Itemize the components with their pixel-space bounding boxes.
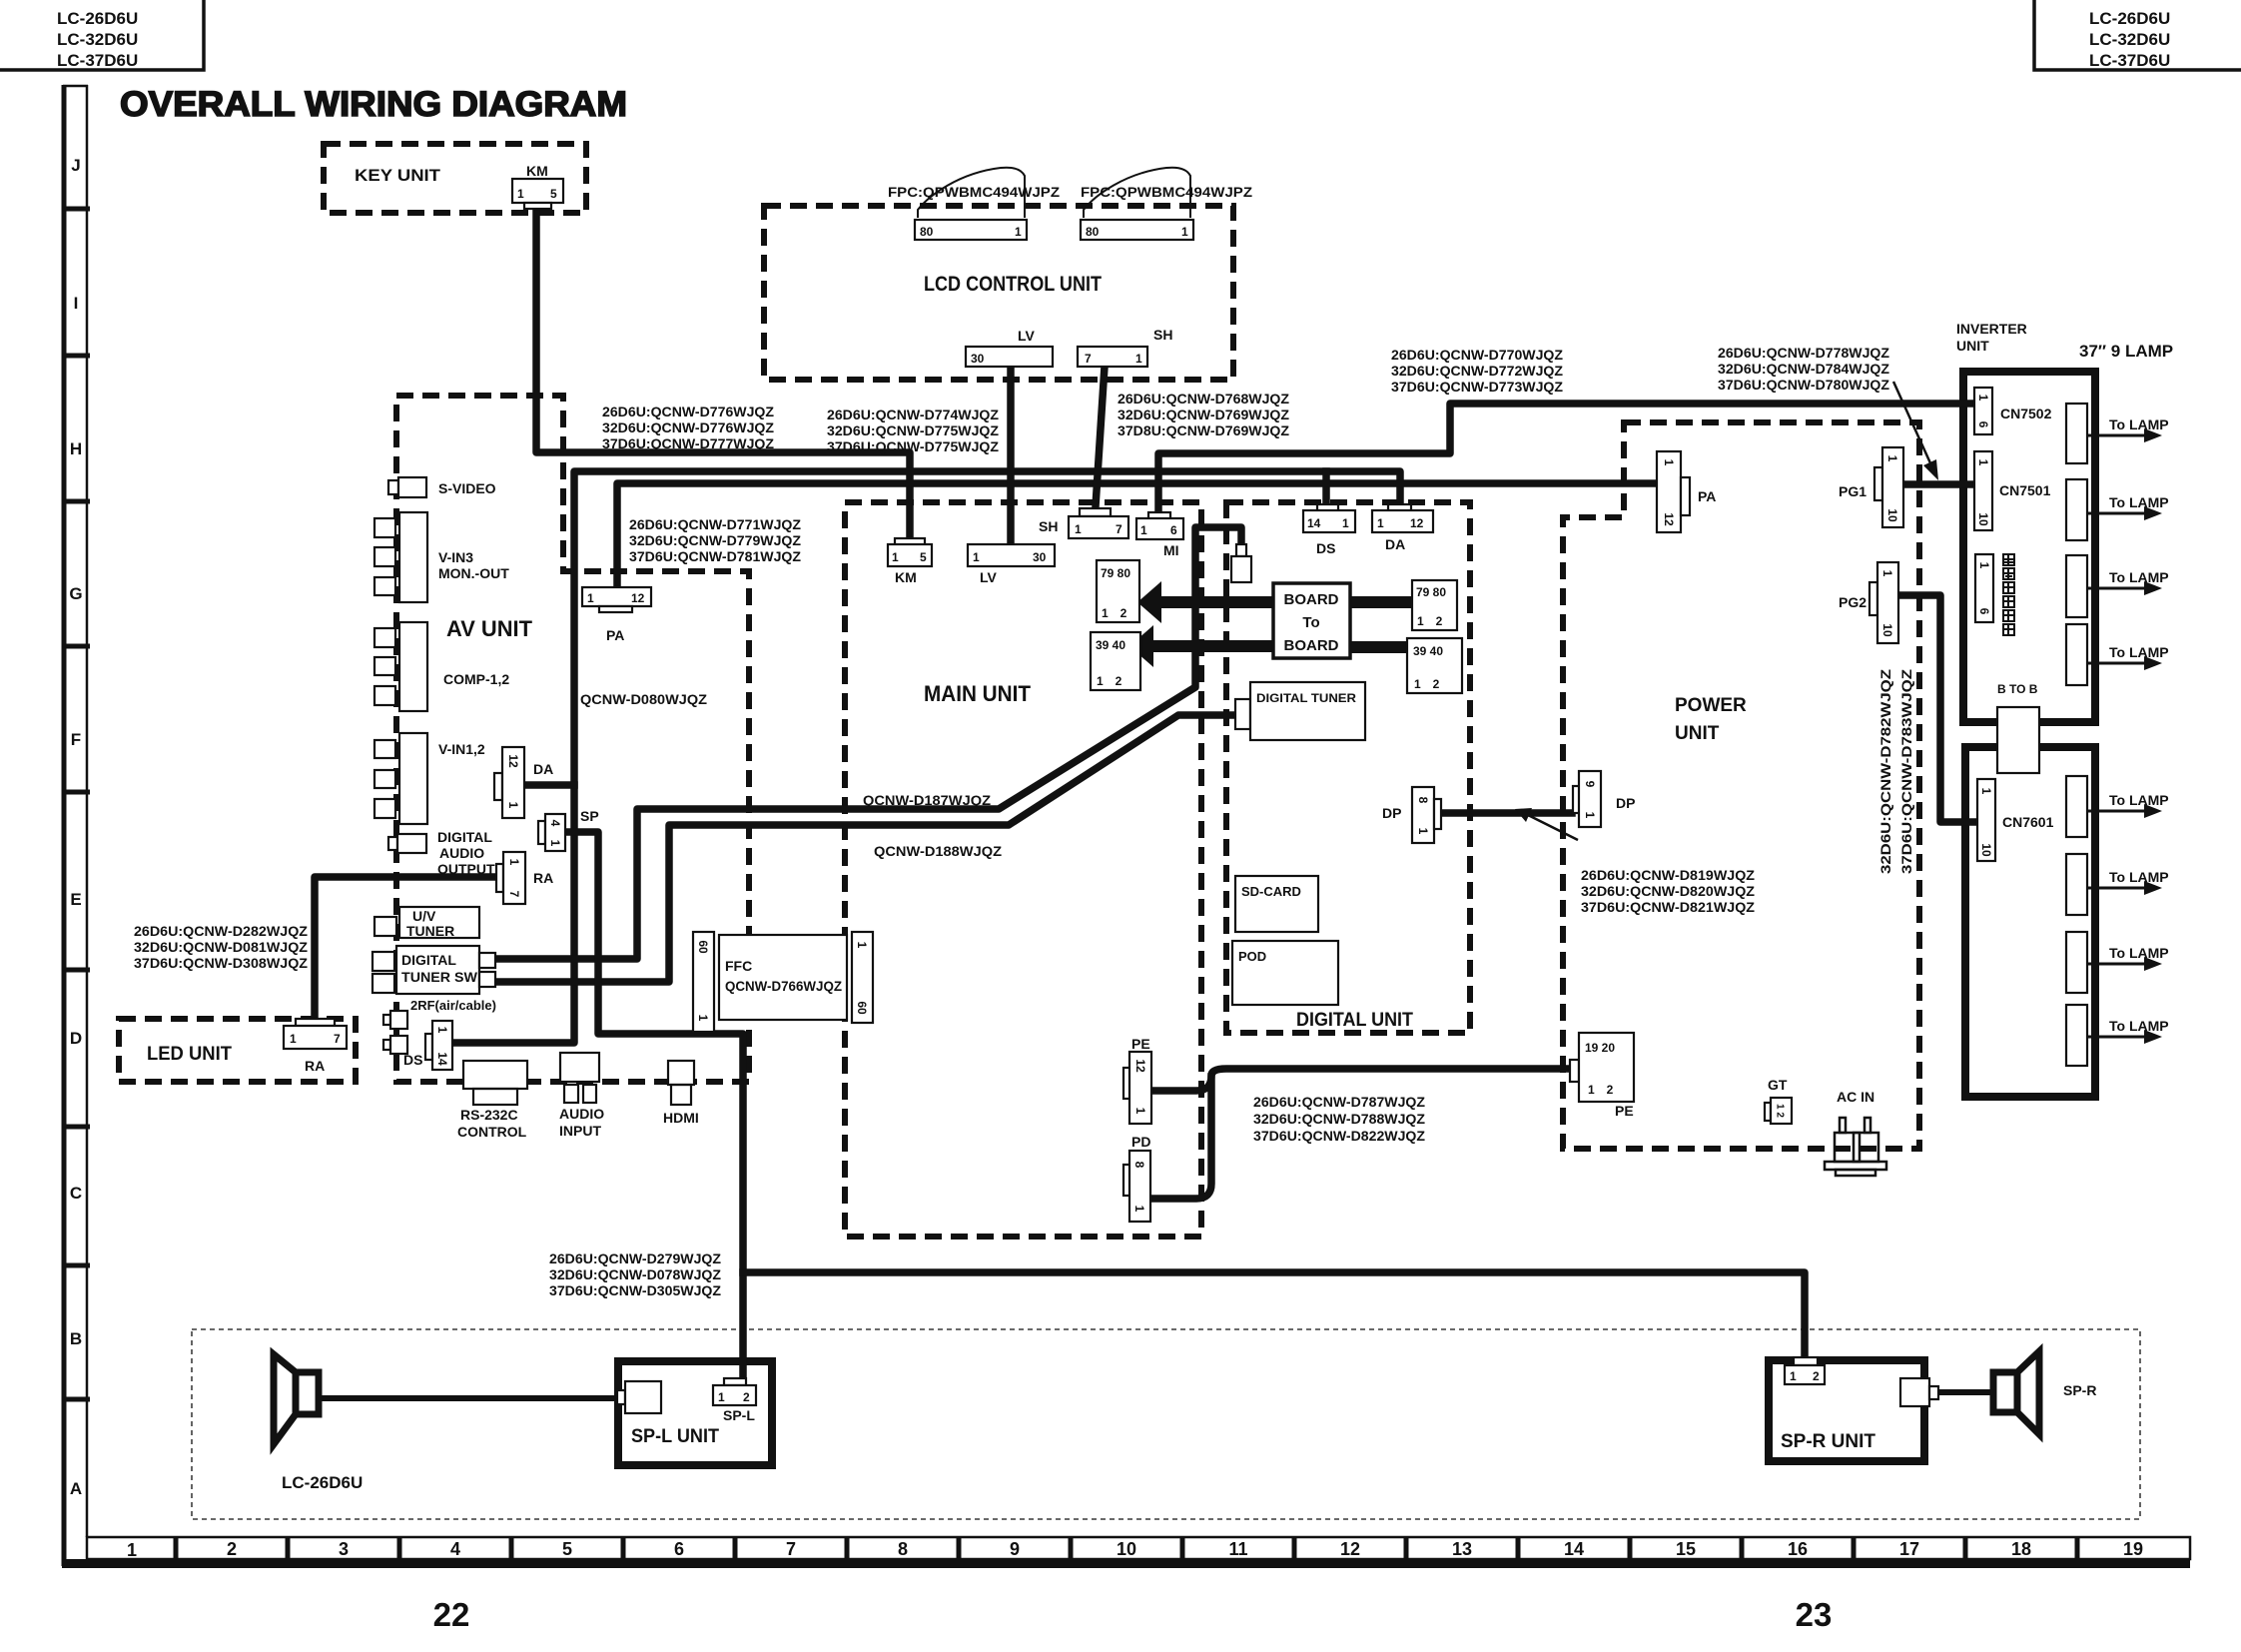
svg-text:AV UNIT: AV UNIT (446, 616, 533, 641)
svg-text:1 2: 1 2 (1097, 674, 1122, 688)
svg-text:10: 10 (1976, 512, 1990, 526)
connector DS (AV unit) pins 1-14 (403, 1021, 452, 1070)
svg-text:1: 1 (1979, 788, 1993, 795)
svg-text:80: 80 (1086, 225, 1100, 239)
svg-text:37″ 9 LAMP: 37″ 9 LAMP (2079, 342, 2173, 361)
label QCNW-D282 group (134, 923, 308, 971)
svg-text:12: 12 (506, 754, 520, 768)
connector KM (key unit) pins 1-5 (512, 163, 563, 209)
svg-text:1: 1 (290, 1032, 297, 1046)
unit LED UNIT dashed box (119, 1019, 356, 1082)
svg-text:6: 6 (1170, 523, 1177, 537)
wire PD joining PE harness (1151, 1077, 1211, 1199)
svg-text:To LAMP: To LAMP (2109, 494, 2169, 510)
svg-text:BOARD: BOARD (1284, 637, 1339, 654)
svg-text:LV: LV (1018, 328, 1036, 344)
board-to-board bar upper right (1350, 596, 1412, 608)
connector RA (LED unit) pins 1-7 (284, 1019, 347, 1074)
svg-text:PA: PA (1698, 488, 1716, 504)
svg-text:TUNER SW: TUNER SW (401, 969, 478, 985)
svg-text:To LAMP: To LAMP (2109, 569, 2169, 585)
svg-text:2: 2 (227, 1539, 237, 1559)
unit KEY UNIT dashed box (324, 144, 586, 213)
svg-text:1: 1 (1976, 395, 1990, 402)
wire RA to LED unit (315, 877, 496, 1018)
svg-text:LV: LV (980, 569, 998, 585)
svg-text:E: E (70, 890, 81, 909)
lamp connector rects lower inverter (2066, 776, 2087, 1066)
svg-text:BOARD: BOARD (1284, 591, 1339, 608)
wire bus A: AV DS/DA to MAIN DS/DA (454, 471, 1400, 1043)
svg-text:60: 60 (696, 940, 710, 954)
svg-text:12: 12 (1410, 516, 1424, 530)
jack AUDIO INPUT (559, 1053, 604, 1139)
svg-text:26D6U:QCNW-D279WJQZ: 26D6U:QCNW-D279WJQZ (549, 1250, 721, 1266)
connector MI (main unit) pins 1-6 (1136, 512, 1183, 558)
svg-text:UNIT: UNIT (1675, 723, 1720, 744)
connector DP (power unit) (1573, 771, 1635, 827)
wire bus B: AV PA to POWER PA (617, 483, 1656, 586)
svg-text:OUTPUT: OUTPUT (437, 861, 495, 877)
connector DA (main unit) pins 1-12 (1372, 504, 1433, 552)
board-to-board bar lower right (1350, 641, 1407, 653)
svg-text:9: 9 (1010, 1539, 1020, 1559)
svg-text:6: 6 (674, 1539, 684, 1559)
svg-text:32D6U:QCNW-D775WJQZ: 32D6U:QCNW-D775WJQZ (827, 422, 999, 438)
label QCNW-D778 group (1718, 345, 1889, 393)
svg-text:DA: DA (1385, 536, 1405, 552)
AC IN plug (1825, 1089, 1886, 1176)
label QCNW-D782/D783 rotated (1877, 668, 1914, 874)
svg-text:FPC:QPWBMC494WJPZ: FPC:QPWBMC494WJPZ (1081, 184, 1252, 200)
svg-text:80: 80 (920, 225, 934, 239)
wire PE to power PE (1152, 1069, 1568, 1091)
svg-text:SH: SH (1039, 518, 1058, 534)
FPC cable bracket 1 (918, 168, 1025, 218)
FPC cable bracket 2 (1084, 168, 1190, 218)
svg-text:30: 30 (1033, 550, 1047, 564)
svg-text:1: 1 (1662, 459, 1676, 466)
svg-text:1: 1 (506, 802, 520, 809)
unit MAIN UNIT dashed box (845, 502, 1201, 1237)
bottom chassis dotted box (192, 1329, 2140, 1519)
svg-text:CONTROL: CONTROL (457, 1124, 527, 1140)
svg-text:1: 1 (855, 942, 869, 949)
svg-text:To: To (1302, 614, 1319, 631)
svg-text:1: 1 (1880, 570, 1894, 577)
frame row letters (69, 156, 82, 1498)
svg-text:1 2: 1 2 (1102, 606, 1127, 620)
svg-text:37D6U:QCNW-D822WJQZ: 37D6U:QCNW-D822WJQZ (1253, 1128, 1425, 1144)
svg-text:F: F (71, 730, 81, 749)
connector SP (AV unit) pins 4-1 (538, 808, 599, 851)
svg-text:CN7601: CN7601 (2002, 814, 2054, 830)
svg-text:23: 23 (1796, 1596, 1833, 1633)
jack HDMI (663, 1061, 699, 1126)
svg-text:10: 10 (1885, 508, 1899, 522)
svg-text:DA: DA (533, 761, 553, 777)
svg-text:12: 12 (631, 591, 645, 605)
connector PA (AV unit) pins 1-12 (582, 587, 651, 643)
svg-text:G: G (69, 584, 82, 603)
svg-text:37D6U:QCNW-D773WJQZ: 37D6U:QCNW-D773WJQZ (1391, 379, 1563, 395)
jack block V-IN3 MON.-OUT (374, 512, 509, 602)
svg-text:OVERALL WIRING DIAGRAM: OVERALL WIRING DIAGRAM (120, 85, 627, 124)
svg-text:26D6U:QCNW-D774WJQZ: 26D6U:QCNW-D774WJQZ (827, 407, 999, 422)
svg-text:AUDIO: AUDIO (439, 845, 484, 861)
svg-text:SP: SP (580, 808, 599, 824)
svg-text:17: 17 (1899, 1539, 1919, 1559)
plug above digital tuner (1231, 544, 1251, 582)
svg-text:6: 6 (1977, 608, 1991, 615)
svg-text:10: 10 (1117, 1539, 1136, 1559)
svg-text:1: 1 (696, 1015, 710, 1022)
wire SP to SP-L unit (566, 832, 743, 1377)
wire SH (LCD to MAIN) (1096, 367, 1105, 506)
unit INVERTER upper box (1963, 372, 2095, 722)
svg-text:1: 1 (507, 859, 521, 866)
svg-text:1 2: 1 2 (1417, 614, 1443, 628)
svg-text:HDMI: HDMI (663, 1110, 699, 1126)
connector PG2 (power unit) pins 1-10 (1839, 562, 1898, 643)
svg-text:1: 1 (587, 591, 594, 605)
svg-text:1: 1 (1416, 828, 1430, 835)
model number box top-right (2034, 0, 2241, 70)
svg-text:1: 1 (1976, 459, 1990, 466)
svg-text:1: 1 (1977, 562, 1991, 569)
wire SP-L speaker lead (318, 1395, 617, 1401)
svg-text:LED UNIT: LED UNIT (147, 1044, 232, 1065)
svg-text:To LAMP: To LAMP (2109, 416, 2169, 432)
connector PE (power unit) pins 19-20/1-2 (1570, 1033, 1634, 1119)
unit DIGITAL UNIT dashed box (1226, 502, 1470, 1033)
svg-text:RS-232C: RS-232C (460, 1107, 518, 1123)
svg-text:39 40: 39 40 (1413, 644, 1443, 658)
svg-text:10: 10 (1979, 843, 1993, 857)
svg-text:39 40: 39 40 (1096, 638, 1125, 652)
unit INVERTER lower box (1965, 747, 2095, 1097)
svg-text:LC-26D6U: LC-26D6U (57, 9, 138, 28)
connector PG1 (power unit) pins 1-10 (1839, 447, 1903, 527)
svg-text:DP: DP (1382, 805, 1401, 821)
label INVERTER UNIT (1956, 321, 2027, 354)
svg-text:DIGITAL UNIT: DIGITAL UNIT (1296, 1010, 1413, 1031)
svg-text:37D6U:QCNW-D780WJQZ: 37D6U:QCNW-D780WJQZ (1718, 377, 1889, 393)
DIGITAL TUNER SW box (373, 946, 495, 994)
unit SP-L UNIT box (618, 1361, 772, 1465)
svg-text:LCD CONTROL UNIT: LCD CONTROL UNIT (924, 273, 1102, 296)
wire branch DS (main) drop (1322, 471, 1330, 503)
svg-text:POD: POD (1238, 949, 1266, 964)
svg-text:8: 8 (898, 1539, 908, 1559)
connector FPC 80-1 (right) (1081, 220, 1193, 240)
svg-text:7: 7 (1116, 522, 1122, 536)
svg-text:8: 8 (1416, 797, 1430, 804)
svg-text:AUDIO: AUDIO (559, 1106, 604, 1122)
svg-text:3: 3 (339, 1539, 349, 1559)
jack block COMP-1,2 (374, 622, 509, 711)
label QCNW-D819 group (1581, 867, 1755, 915)
svg-text:LC-37D6U: LC-37D6U (2089, 51, 2170, 70)
svg-text:PG2: PG2 (1839, 594, 1867, 610)
svg-text:MON.-OUT: MON.-OUT (438, 565, 509, 581)
svg-text:10: 10 (1880, 623, 1894, 637)
svg-text:37D8U:QCNW-D769WJQZ: 37D8U:QCNW-D769WJQZ (1118, 422, 1289, 438)
connector PE (digital unit) pins 12-1 (1123, 1036, 1151, 1124)
speaker SP-R (1993, 1351, 2096, 1434)
svg-text:37D6U:QCNW-D777WJQZ: 37D6U:QCNW-D777WJQZ (602, 435, 774, 451)
svg-text:PD: PD (1131, 1134, 1150, 1150)
svg-text:H: H (70, 439, 82, 458)
svg-text:12: 12 (1662, 512, 1676, 526)
connector CN7501 pins 1-10 (1974, 451, 2051, 530)
svg-text:1: 1 (1342, 516, 1349, 530)
svg-text:37D6U:QCNW-D781WJQZ: 37D6U:QCNW-D781WJQZ (629, 548, 801, 564)
svg-text:FPC:QPWBMC494WJPZ: FPC:QPWBMC494WJPZ (888, 184, 1060, 200)
svg-text:1: 1 (127, 1540, 137, 1560)
connector 39-40 / 1-2 (main, lower) (1091, 632, 1140, 690)
svg-text:1: 1 (435, 1027, 449, 1034)
svg-text:KEY UNIT: KEY UNIT (355, 166, 441, 185)
connector GT (power unit) (1765, 1077, 1792, 1124)
connector 79-80 / 1-2 (main, upper) (1097, 560, 1139, 622)
svg-text:CN7502: CN7502 (2000, 406, 2052, 421)
svg-text:32D6U:QCNW-D820WJQZ: 32D6U:QCNW-D820WJQZ (1581, 883, 1755, 899)
svg-text:26D6U:QCNW-D776WJQZ: 26D6U:QCNW-D776WJQZ (602, 404, 774, 419)
connector SH (LCD side) pins 7-1 (1078, 327, 1172, 367)
svg-text:13: 13 (1452, 1539, 1472, 1559)
svg-text:PE: PE (1131, 1036, 1150, 1052)
frame column numbers (127, 1539, 2143, 1560)
POD box (1232, 941, 1338, 1005)
svg-text:1 2: 1 2 (1588, 1083, 1614, 1097)
jack block V-IN1,2 (374, 733, 485, 824)
annotation arrow to DP wire (1515, 808, 1578, 840)
svg-text:32D6U:QCNW-D776WJQZ: 32D6U:QCNW-D776WJQZ (602, 419, 774, 435)
label QCNW-D768 group (1118, 391, 1289, 438)
frame bottom number row (62, 1537, 2190, 1568)
svg-text:30: 30 (971, 352, 985, 366)
svg-text:SH: SH (1153, 327, 1172, 343)
svg-text:7: 7 (1085, 352, 1092, 366)
label QCNW-D776 group (602, 404, 774, 451)
connector CN7502 pins 1-6 (1974, 388, 2052, 434)
svg-text:RA: RA (305, 1058, 325, 1074)
svg-text:QCNW-D188WJQZ: QCNW-D188WJQZ (874, 843, 1002, 859)
svg-text:32D6U:QCNW-D078WJQZ: 32D6U:QCNW-D078WJQZ (549, 1266, 721, 1282)
svg-text:1: 1 (1075, 522, 1082, 536)
svg-text:5: 5 (562, 1539, 572, 1559)
svg-text:22: 22 (433, 1596, 470, 1633)
label QCNW-D279 group (549, 1250, 721, 1298)
jack RS-232C CONTROL (457, 1061, 527, 1140)
connector DS (main unit) pins 14-1 (1303, 504, 1355, 556)
connector CN7601 pins 1-10 (1977, 779, 2054, 861)
svg-text:60: 60 (855, 1001, 869, 1015)
svg-text:LC-26D6U: LC-26D6U (282, 1473, 363, 1492)
svg-text:37D6U:QCNW-D783WJQZ: 37D6U:QCNW-D783WJQZ (1898, 668, 1914, 874)
svg-text:2: 2 (743, 1390, 750, 1404)
svg-text:32D6U:QCNW-D788WJQZ: 32D6U:QCNW-D788WJQZ (1253, 1111, 1425, 1127)
svg-text:5: 5 (550, 187, 557, 201)
speaker SP-L (274, 1354, 319, 1444)
wire QCNW-D187WJQZ tuner SW to plug (496, 527, 1241, 959)
svg-text:4: 4 (548, 820, 562, 827)
unit POWER UNIT dashed box (1563, 422, 1919, 1149)
svg-text:79 80: 79 80 (1416, 585, 1446, 599)
svg-text:1: 1 (1133, 1108, 1147, 1115)
wire QCNW-D188WJQZ tuner SW to digital tuner (496, 715, 1233, 982)
FFC label box (719, 935, 847, 1020)
wire PG2 to CN7601 (1898, 595, 1975, 822)
svg-text:GT: GT (1768, 1077, 1788, 1093)
connector DA (AV unit) pins 12-1 (494, 747, 553, 818)
svg-text:37D6U:QCNW-D308WJQZ: 37D6U:QCNW-D308WJQZ (134, 955, 308, 971)
svg-text:DIGITAL TUNER: DIGITAL TUNER (1256, 691, 1356, 705)
svg-text:MI: MI (1163, 542, 1179, 558)
svg-text:32D6U:QCNW-D782WJQZ: 32D6U:QCNW-D782WJQZ (1877, 668, 1893, 874)
svg-text:1: 1 (1140, 523, 1147, 537)
svg-text:To LAMP: To LAMP (2109, 869, 2169, 885)
svg-text:4: 4 (450, 1539, 460, 1559)
svg-text:1 2: 1 2 (1775, 1104, 1786, 1118)
svg-text:C: C (70, 1184, 82, 1203)
svg-text:DS: DS (1316, 540, 1335, 556)
svg-text:32D6U:QCNW-D081WJQZ: 32D6U:QCNW-D081WJQZ (134, 939, 308, 955)
svg-text:18: 18 (2011, 1539, 2031, 1559)
svg-text:2: 2 (1813, 1369, 1820, 1383)
svg-text:1: 1 (718, 1390, 725, 1404)
svg-text:1: 1 (1583, 812, 1597, 819)
svg-text:INPUT: INPUT (559, 1123, 601, 1139)
wire speaker bus to SP-R unit (743, 1272, 1805, 1356)
svg-text:U/V: U/V (412, 908, 436, 924)
svg-text:QCNW-D766WJQZ: QCNW-D766WJQZ (725, 978, 842, 994)
unit SP-R UNIT box (1769, 1360, 1924, 1461)
wire DP digital to DP power (1441, 809, 1572, 817)
svg-text:1: 1 (1885, 455, 1899, 462)
connector FFC 60-1 (AV side) (693, 932, 714, 1032)
svg-text:1: 1 (1181, 225, 1188, 239)
svg-text:PG1: PG1 (1839, 483, 1867, 499)
connector LV (main unit) pins 1-30 (968, 544, 1055, 585)
svg-text:POWER: POWER (1675, 695, 1747, 716)
svg-text:9: 9 (1583, 781, 1597, 788)
connector 79-80 / 1-2 (digital, upper) (1412, 580, 1457, 630)
svg-text:V-IN3: V-IN3 (438, 549, 473, 565)
connector SH (main unit) pins 1-7 (1039, 508, 1128, 538)
model number box top-left (0, 0, 204, 70)
connector gaihan line pins 1-6 (1975, 554, 1993, 622)
wire branch DA (AV) tap (526, 781, 574, 789)
connector PA (power unit) pins 1-12 (1657, 451, 1716, 532)
svg-text:15: 15 (1676, 1539, 1696, 1559)
wire KEY UNIT KM to MAIN KM (536, 208, 910, 537)
svg-text:7: 7 (334, 1032, 341, 1046)
svg-text:14: 14 (1564, 1539, 1584, 1559)
svg-text:32D6U:QCNW-D779WJQZ: 32D6U:QCNW-D779WJQZ (629, 532, 801, 548)
jack DIGITAL AUDIO OUTPUT (388, 829, 495, 877)
svg-text:B TO B: B TO B (1997, 682, 2038, 696)
svg-text:1: 1 (1790, 1369, 1797, 1383)
board-to-board arrow upper left (1137, 581, 1273, 623)
svg-text:7: 7 (786, 1539, 796, 1559)
svg-text:MAIN UNIT: MAIN UNIT (924, 681, 1032, 706)
label gaihan-line-yo (vertical Japanese) (2003, 554, 2014, 635)
svg-text:1: 1 (1015, 225, 1022, 239)
SP-R internal jack (1900, 1378, 1938, 1406)
svg-text:1: 1 (892, 550, 899, 564)
DIGITAL TUNER box (1235, 682, 1365, 740)
svg-text:1 2: 1 2 (1414, 677, 1440, 691)
svg-text:19: 19 (2123, 1539, 2143, 1559)
svg-text:CN7501: CN7501 (1999, 482, 2051, 498)
svg-text:37D6U:QCNW-D305WJQZ: 37D6U:QCNW-D305WJQZ (549, 1282, 721, 1298)
wire SP-R speaker lead (1939, 1389, 1993, 1395)
svg-text:1: 1 (517, 187, 524, 201)
connector SP-L pins 1-2 (713, 1378, 756, 1423)
svg-text:1: 1 (1377, 516, 1384, 530)
unit AV UNIT dashed box (396, 396, 749, 1082)
svg-text:PE: PE (1615, 1103, 1634, 1119)
svg-text:QCNW-D187WJQZ: QCNW-D187WJQZ (863, 792, 991, 808)
svg-text:26D6U:QCNW-D819WJQZ: 26D6U:QCNW-D819WJQZ (1581, 867, 1755, 883)
svg-text:79 80: 79 80 (1101, 566, 1130, 580)
frame left border (63, 85, 90, 1566)
svg-text:5: 5 (920, 550, 927, 564)
svg-text:To LAMP: To LAMP (2109, 945, 2169, 961)
wire PG1 to CN7501 (1903, 480, 1972, 488)
svg-text:FFC: FFC (725, 958, 752, 974)
SD-CARD box (1235, 876, 1318, 932)
BOARD To BOARD box (1273, 583, 1350, 658)
svg-text:32D6U:QCNW-D769WJQZ: 32D6U:QCNW-D769WJQZ (1118, 407, 1289, 422)
lamp connector rects upper inverter (2066, 404, 2087, 685)
svg-text:1: 1 (1135, 352, 1142, 366)
U/V TUNER box (374, 907, 479, 939)
connector PD (digital unit) pins 8-1 (1123, 1134, 1150, 1222)
svg-text:A: A (70, 1479, 82, 1498)
svg-text:To LAMP: To LAMP (2109, 644, 2169, 660)
To LAMP arrows (lower inverter) (2087, 792, 2169, 1044)
svg-text:37D6U:QCNW-D775WJQZ: 37D6U:QCNW-D775WJQZ (827, 438, 999, 454)
connector RA (AV unit) pins 1-7 (496, 852, 553, 904)
svg-text:37D6U:QCNW-D821WJQZ: 37D6U:QCNW-D821WJQZ (1581, 899, 1755, 915)
svg-text:B: B (70, 1329, 82, 1348)
connector 39-40 / 1-2 (digital, lower) (1407, 638, 1462, 693)
svg-text:KM: KM (895, 569, 917, 585)
svg-text:16: 16 (1788, 1539, 1808, 1559)
svg-text:SP-R UNIT: SP-R UNIT (1781, 1431, 1875, 1452)
svg-text:12: 12 (1340, 1539, 1360, 1559)
B TO B connector (1997, 682, 2039, 773)
svg-text:QCNW-D080WJQZ: QCNW-D080WJQZ (580, 691, 707, 707)
svg-text:D: D (70, 1029, 82, 1048)
connector KM (main unit) pins 1-5 (888, 538, 932, 585)
svg-text:6: 6 (1976, 421, 1990, 428)
svg-text:SD-CARD: SD-CARD (1241, 884, 1301, 899)
svg-text:KM: KM (526, 163, 548, 179)
label QCNW-D787 group (1253, 1094, 1425, 1144)
connector LV (LCD side) pin 30 (966, 328, 1053, 367)
svg-text:UNIT: UNIT (1956, 338, 1989, 354)
svg-text:14: 14 (435, 1052, 449, 1066)
svg-text:SP-R: SP-R (2063, 1382, 2096, 1398)
connector DP (digital unit) (1382, 787, 1441, 843)
svg-text:AC IN: AC IN (1837, 1089, 1874, 1105)
connector FPC 80-1 (left) (915, 220, 1027, 240)
connector SP-R pins 1-2 (1785, 1357, 1825, 1384)
